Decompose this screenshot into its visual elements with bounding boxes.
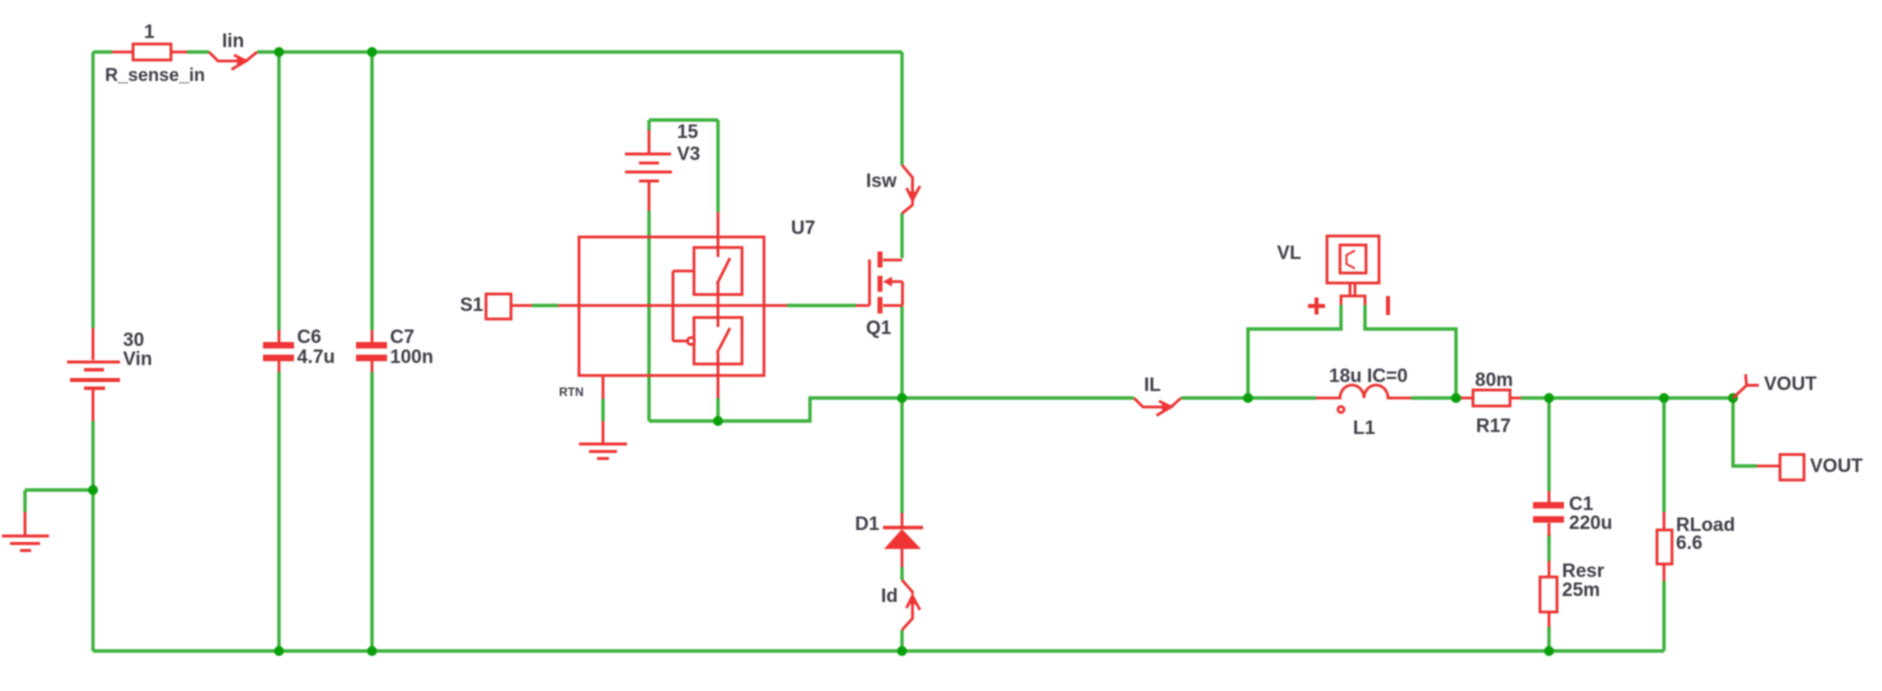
svg-text:V3: V3 xyxy=(677,144,700,165)
svg-text:R17: R17 xyxy=(1476,416,1511,437)
svg-text:18u IC=0: 18u IC=0 xyxy=(1329,366,1408,387)
svg-text:VOUT: VOUT xyxy=(1810,456,1863,477)
svg-text:R_sense_in: R_sense_in xyxy=(105,65,205,85)
svg-text:Iin: Iin xyxy=(222,31,244,52)
svg-text:4.7u: 4.7u xyxy=(297,347,335,368)
svg-text:Vin: Vin xyxy=(123,349,152,370)
svg-text:C7: C7 xyxy=(390,327,414,348)
svg-text:100n: 100n xyxy=(390,347,433,368)
svg-text:VL: VL xyxy=(1277,243,1302,264)
svg-text:80m: 80m xyxy=(1475,370,1513,391)
svg-text:30: 30 xyxy=(123,330,144,351)
svg-text:6.6: 6.6 xyxy=(1676,533,1702,554)
svg-text:Id: Id xyxy=(881,586,898,607)
svg-text:Q1: Q1 xyxy=(866,318,892,339)
svg-text:220u: 220u xyxy=(1569,513,1612,534)
svg-text:Isw: Isw xyxy=(866,171,897,192)
svg-text:Resr: Resr xyxy=(1562,561,1605,582)
svg-text:S1: S1 xyxy=(460,295,484,316)
svg-text:C6: C6 xyxy=(297,327,321,348)
svg-text:C1: C1 xyxy=(1569,494,1594,515)
svg-text:U7: U7 xyxy=(791,218,815,239)
svg-text:VOUT: VOUT xyxy=(1764,374,1817,395)
svg-text:25m: 25m xyxy=(1562,580,1600,601)
svg-text:D1: D1 xyxy=(855,514,880,535)
svg-text:15: 15 xyxy=(677,122,699,143)
svg-text:IL: IL xyxy=(1144,375,1161,396)
svg-text:L1: L1 xyxy=(1353,418,1376,439)
svg-text:1: 1 xyxy=(144,22,155,43)
svg-text:RTN: RTN xyxy=(559,385,584,399)
